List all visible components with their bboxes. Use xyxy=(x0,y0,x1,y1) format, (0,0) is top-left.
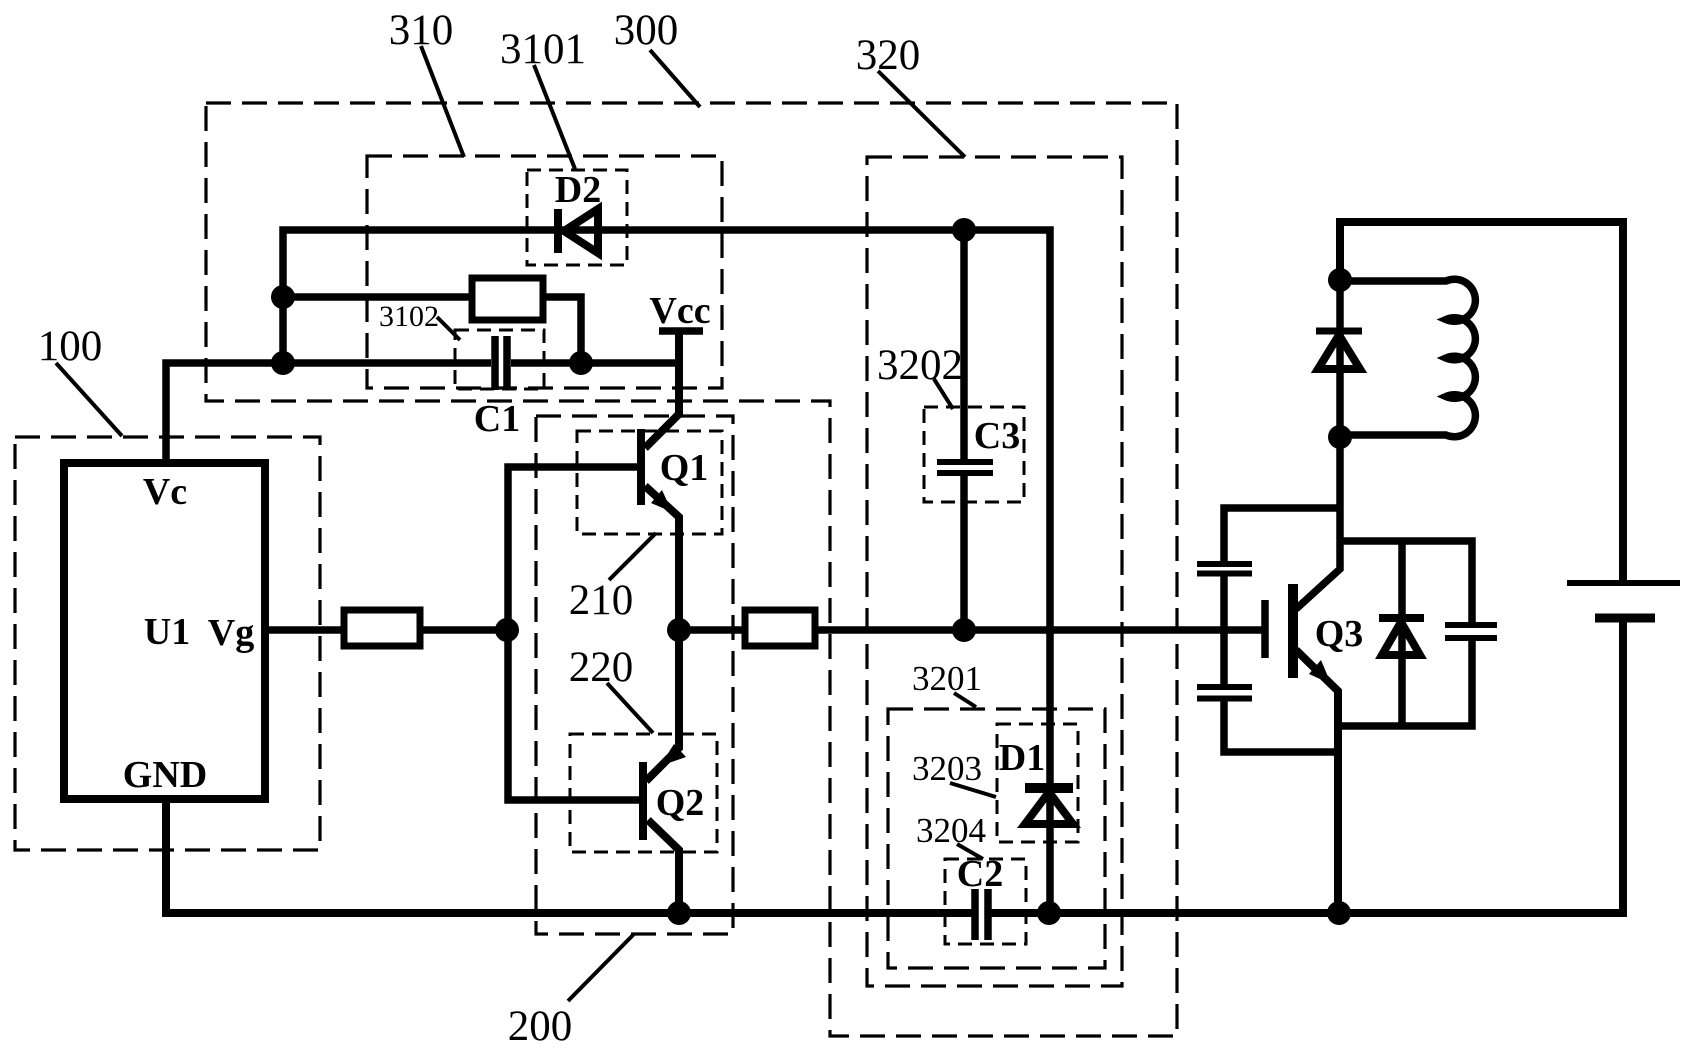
leader for 100 xyxy=(56,363,122,436)
transistor Q1 base bar xyxy=(637,429,645,505)
transistor Q3 emitter arrow xyxy=(1309,660,1331,684)
wire: freewheel column through diode xyxy=(1336,280,1344,437)
svg-text:D1: D1 xyxy=(999,737,1045,779)
leader for 3201 xyxy=(954,693,976,707)
transistor Q2 base bar xyxy=(639,762,647,840)
svg-text:Q1: Q1 xyxy=(660,447,709,489)
junction node J (Q3 emitter on rail) xyxy=(1327,901,1351,925)
leader for 220 xyxy=(607,683,653,733)
junction node G (C3 bottom on gate line) xyxy=(952,618,976,642)
svg-text:C3: C3 xyxy=(974,415,1020,457)
box 3101 xyxy=(527,170,627,265)
leader for 310 xyxy=(421,46,464,157)
diode D2 xyxy=(558,209,598,253)
capacitor C1 xyxy=(495,336,507,390)
capacitor C2 xyxy=(975,889,988,940)
svg-text:3102: 3102 xyxy=(379,300,439,333)
wire: Vc line from C1 left plate to U1 top xyxy=(166,363,491,463)
wire: Q1/Q2 base column xyxy=(508,467,639,800)
wire: top-left rail with drop to D1 and node column xyxy=(283,230,1050,913)
junction node F (push-pull output) xyxy=(667,618,691,642)
diode D3 (freewheel, unlabeled) xyxy=(1316,331,1362,369)
svg-text:220: 220 xyxy=(569,644,634,691)
box 300 (L-shaped dashed outline) xyxy=(206,103,1177,1036)
wire: C3 branch lower lead xyxy=(960,475,968,630)
svg-text:3204: 3204 xyxy=(916,811,986,850)
junction node A (top feedback) xyxy=(271,285,295,309)
svg-text:GND: GND xyxy=(123,754,207,796)
leader for 3204 xyxy=(957,844,983,859)
wire: push-pull output node to R2 xyxy=(679,626,745,634)
box 210 around Q1 xyxy=(577,431,722,534)
wire: clamp network bottom rail xyxy=(1339,641,1472,726)
transistor Q2 emitter lead xyxy=(646,630,679,781)
svg-text:3101: 3101 xyxy=(500,26,586,73)
box 3202 around C3 xyxy=(924,407,1024,502)
resistor R2 (gate resistor) xyxy=(745,610,815,646)
power symbol Vcc xyxy=(659,327,703,335)
junction node I (D1 anode on rail) xyxy=(1037,901,1061,925)
wire: coil node down to Q3 collector xyxy=(1296,437,1340,609)
leader for 3101 xyxy=(534,65,575,169)
box 3204 around C2 xyxy=(945,859,1026,944)
transistor Q2 collector lead xyxy=(648,820,679,913)
transistor Q3 body bar xyxy=(1288,584,1298,678)
diode D1 xyxy=(1025,788,1073,824)
resistor R1 (gate drive input) xyxy=(344,610,420,646)
wire: bottom rail right segment to battery xyxy=(991,618,1623,913)
wire: gate line to Q3 xyxy=(815,626,1262,634)
wire: top-right rail from battery over to coil column xyxy=(1340,222,1623,583)
box 3102 around C1 xyxy=(455,330,544,389)
resistor R4 (3102 network resistor) xyxy=(472,278,543,320)
junction node B (Vc line) xyxy=(271,351,295,375)
diode D4 (clamp, unlabeled) xyxy=(1379,618,1424,655)
svg-text:Vg: Vg xyxy=(208,612,254,654)
box 310 xyxy=(367,156,722,388)
leader for 3202 xyxy=(934,379,953,409)
svg-text:320: 320 xyxy=(856,32,921,79)
svg-text:Q3: Q3 xyxy=(1315,613,1364,655)
svg-text:Q2: Q2 xyxy=(656,782,705,824)
leader for 200 xyxy=(568,934,634,1001)
wire: clamp network top rail xyxy=(1339,541,1472,622)
capacitor C3 xyxy=(937,462,993,473)
battery BT1 xyxy=(1567,583,1680,618)
transistor Q1 collector lead from Vcc xyxy=(645,333,679,448)
wire: C3 branch upper lead xyxy=(960,230,968,460)
junction node H (Q2 collector on rail) xyxy=(667,901,691,925)
svg-text:100: 100 xyxy=(38,323,103,370)
svg-text:Vc: Vc xyxy=(143,471,187,513)
box 320 xyxy=(867,157,1122,986)
svg-text:210: 210 xyxy=(569,577,634,624)
capacitor C4 (upper snubber) xyxy=(1197,564,1252,574)
capacitor C5 (lower snubber) xyxy=(1197,687,1252,699)
junction node D (C3 top) xyxy=(952,218,976,242)
junction node L (coil bottom) xyxy=(1328,425,1352,449)
transistor Q1 emitter arrow xyxy=(651,490,672,512)
leader for 210 xyxy=(609,533,656,580)
leader for 3203 xyxy=(950,783,996,797)
wire: U1 Vg output lead xyxy=(265,626,344,634)
svg-text:3201: 3201 xyxy=(912,659,982,698)
transistor Q1 emitter lead xyxy=(645,486,679,630)
svg-text:3203: 3203 xyxy=(912,749,982,788)
svg-text:3202: 3202 xyxy=(877,342,963,389)
leader for 320 xyxy=(878,71,965,157)
transistor Q3 gate bar xyxy=(1261,600,1269,658)
wire: clamp diode branch xyxy=(1398,541,1406,726)
svg-text:C1: C1 xyxy=(474,398,520,440)
box 100 xyxy=(15,437,320,850)
box 200 xyxy=(536,416,733,934)
box 3201 xyxy=(888,709,1105,968)
wire: C1 right plate to Vcc column xyxy=(511,359,679,367)
leader for 300 xyxy=(650,50,700,107)
junction node E (base divider) xyxy=(495,618,519,642)
svg-text:Vcc: Vcc xyxy=(649,290,710,332)
svg-text:C2: C2 xyxy=(957,853,1003,895)
wire: snubber branch (gate-emitter capacitors) xyxy=(1224,508,1340,752)
svg-text:200: 200 xyxy=(508,1003,573,1050)
leader for 3102 xyxy=(437,317,460,340)
svg-text:D2: D2 xyxy=(555,169,601,211)
transistor Q3 emitter lead xyxy=(1296,650,1338,913)
IC U1 box xyxy=(64,463,265,799)
svg-text:U1: U1 xyxy=(144,611,190,653)
svg-text:300: 300 xyxy=(614,7,679,54)
junction node C (R4/C1 right) xyxy=(569,351,593,375)
wire: R4 upper branch leads xyxy=(283,293,472,301)
transistor Q2 emitter arrow xyxy=(660,744,686,766)
wire: R4 right lead down to node xyxy=(543,297,581,363)
box 220 around Q2 xyxy=(570,734,717,852)
wire: U1 GND to bottom rail (left segment to C2) xyxy=(166,799,972,913)
junction node K (coil top) xyxy=(1328,268,1352,292)
wire: R1 to base node xyxy=(420,626,508,634)
capacitor C6 (clamp) xyxy=(1445,625,1497,638)
box 3203 around D1 xyxy=(997,724,1078,842)
inductor L1 (relay coil) xyxy=(1340,279,1475,437)
